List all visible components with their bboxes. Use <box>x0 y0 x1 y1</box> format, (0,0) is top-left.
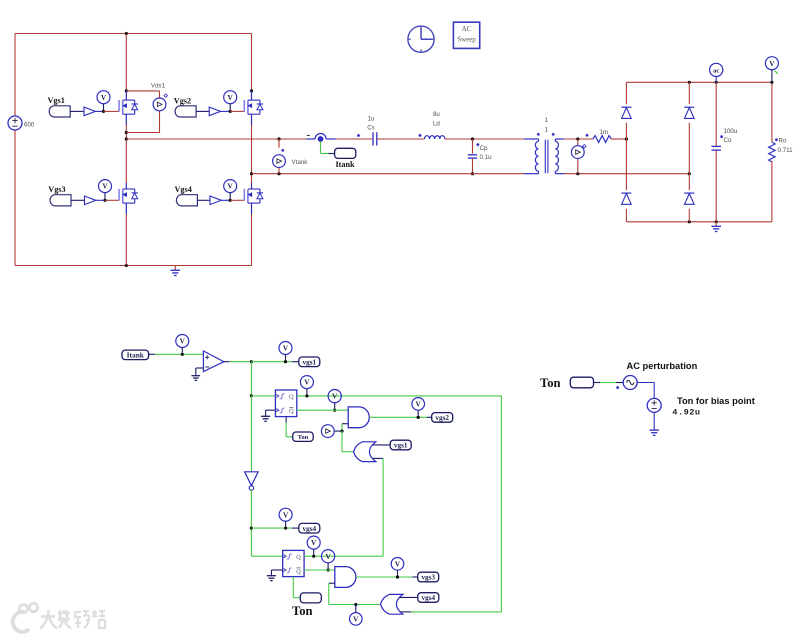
junction rect top D2 <box>688 81 691 84</box>
gating source Vgs4 <box>175 185 198 206</box>
wire Vgs1 to buffer <box>70 110 84 112</box>
ground rectifier <box>711 226 721 231</box>
junction Q2 drain <box>250 89 253 92</box>
svg-text:Q: Q <box>296 554 301 561</box>
wire comp out <box>224 361 252 363</box>
voltage probe Vout <box>765 57 778 84</box>
wire to FF2 <box>251 555 282 557</box>
svg-text:V: V <box>311 538 317 547</box>
svg-text:Q: Q <box>289 394 294 401</box>
wire AND1 in2 stub <box>342 424 348 431</box>
wire sensor to label <box>321 142 335 154</box>
svg-text:AC perturbation: AC perturbation <box>627 361 698 371</box>
wire gate2 <box>230 110 244 112</box>
diode D4 <box>684 193 694 204</box>
voltage probe Vvgs3 <box>391 558 404 579</box>
junction sec probe bottom <box>576 172 579 175</box>
net label vgs4 fb <box>418 593 439 603</box>
svg-text:0.711: 0.711 <box>778 147 794 154</box>
label 4.92u <box>672 408 700 418</box>
probe ac output <box>710 63 723 82</box>
junction Vtank bottom <box>277 172 280 175</box>
NOT gate inverter <box>245 472 259 491</box>
voltage probe Vg2 <box>224 91 237 113</box>
voltage probe Vg3 <box>99 180 112 202</box>
junction AND2 in2 <box>354 603 357 606</box>
probe V below <box>350 605 363 626</box>
svg-text:V: V <box>325 552 331 561</box>
wire FF1 K gnd <box>266 410 276 416</box>
svg-text:600: 600 <box>24 122 35 129</box>
watermark logo <box>13 603 38 632</box>
probe Vtank <box>273 155 286 168</box>
dc source Ton bias <box>647 398 661 412</box>
wire tank top B <box>336 134 373 139</box>
wire feedback vgs-b <box>382 458 384 556</box>
svg-text:V: V <box>180 337 186 346</box>
wire Co ground stub <box>715 222 717 226</box>
wire AND2 out <box>356 576 418 578</box>
svg-text:Ton for bias point: Ton for bias point <box>677 396 755 406</box>
wire Vtank stub top <box>279 139 284 152</box>
svg-text:Vds1: Vds1 <box>151 83 166 90</box>
wire FF2 Q <box>304 555 383 557</box>
svg-text:Ton: Ton <box>298 434 309 441</box>
wire tank top D <box>445 138 524 140</box>
gating source Vgs1 <box>48 96 71 117</box>
probe V on Q1 wire <box>328 390 341 412</box>
label Ton3 text <box>540 376 561 390</box>
junction rect top Co <box>715 81 718 84</box>
junction sec probe top <box>576 137 579 140</box>
svg-text:Vgs4: Vgs4 <box>175 185 192 194</box>
voltage probe Vvgs1 <box>279 342 292 364</box>
ac perturbation source <box>623 376 637 390</box>
junction AND2 out probe <box>396 575 399 578</box>
svg-text:vgs4: vgs4 <box>303 525 317 533</box>
diode D3 <box>621 193 631 204</box>
wire mid leg lower <box>125 214 127 266</box>
wire FF2 Qbar <box>304 569 335 571</box>
svg-text:0.1u: 0.1u <box>480 154 493 161</box>
svg-text:V: V <box>102 182 108 191</box>
dc source Vdc 600V <box>8 116 35 130</box>
wire mid leg upper <box>125 34 127 91</box>
ground Ton bias <box>649 430 659 435</box>
wire diode leg1 <box>625 82 627 222</box>
svg-text:ac: ac <box>713 67 719 74</box>
wire OR1 in1 stub <box>373 444 391 446</box>
wire buffer3 out <box>96 199 105 201</box>
wire rect bottom rail <box>626 221 772 223</box>
AC Sweep block <box>453 22 479 48</box>
junction bridge left mid <box>625 137 628 140</box>
MOSFET Q2 <box>244 91 263 125</box>
AND gate A2 <box>335 567 356 588</box>
diode D1 <box>621 107 631 118</box>
wire main vertical lower <box>250 490 252 556</box>
junction tank top tap <box>125 137 128 140</box>
wire to FF1 J <box>251 395 275 397</box>
capacitor Cp 0.1u <box>468 139 492 174</box>
wire FF1 Ton pin <box>286 417 293 437</box>
svg-text:V: V <box>353 615 359 624</box>
wire FF1 Q <box>297 395 502 397</box>
wire AND1 out <box>369 416 431 418</box>
svg-text:Co: Co <box>724 137 732 144</box>
wire sec probe stub <box>577 139 579 174</box>
resistor RL 1m <box>593 129 611 142</box>
net label Ton3 <box>570 377 593 388</box>
wire AND2 in2 stub <box>329 583 335 604</box>
wire bottom rail <box>15 265 252 267</box>
flip-flop FF1 <box>275 390 296 417</box>
svg-text:Q: Q <box>296 568 301 575</box>
wire comp minus to gnd <box>196 368 204 375</box>
junction leg2 midpoint <box>250 172 253 175</box>
OR gate O1 (mirrored) <box>354 442 376 462</box>
junction rect right mid <box>688 172 691 175</box>
label Vtank <box>292 159 309 166</box>
gating source Vgs2 <box>174 97 196 117</box>
wire 1m to bridge <box>611 138 626 140</box>
junction rect bottom Co <box>715 220 718 223</box>
svg-text:vgs3: vgs3 <box>421 574 435 582</box>
probe Vds1 <box>153 94 167 111</box>
comparator U1 <box>203 351 224 372</box>
svg-text:Ld: Ld <box>433 121 440 128</box>
watermark text <box>41 610 106 629</box>
net label vgs2 out <box>432 413 453 423</box>
wire tank top C <box>377 134 425 139</box>
capacitor Cs 1u <box>367 115 377 145</box>
wire top rail <box>15 33 252 35</box>
on-off controller g2 <box>209 107 220 116</box>
svg-text:Sweep: Sweep <box>457 37 476 44</box>
svg-text:V: V <box>101 93 107 102</box>
junction Vtank top <box>277 137 280 140</box>
net label Itank src <box>122 350 149 360</box>
wire Itank to comp <box>149 353 204 355</box>
wire dc bus left <box>14 34 16 266</box>
svg-text:vgs1: vgs1 <box>303 358 317 366</box>
label AC perturbation <box>627 361 698 371</box>
label Itank text <box>336 160 356 169</box>
wire gate4 <box>230 199 244 201</box>
svg-text:Cp: Cp <box>480 145 488 152</box>
junction AND1 out probe <box>417 416 420 419</box>
MOSFET Q1 <box>119 91 138 125</box>
on-off controller g4 <box>210 196 221 205</box>
wire OR1 out path <box>342 431 354 452</box>
junction rect bottom D2 <box>688 220 691 223</box>
wire OR2 in1 stub <box>400 596 418 598</box>
flip-flop FF2 <box>283 550 304 576</box>
net label Itank flag <box>335 148 356 158</box>
capacitor Co 100u <box>711 82 737 222</box>
wire Vds1 loop top <box>126 91 159 98</box>
svg-text:Itank: Itank <box>336 160 356 169</box>
clock icon <box>408 26 434 52</box>
transformer T1 <box>524 133 564 174</box>
label turns primary <box>544 117 548 124</box>
svg-text:vgs1: vgs1 <box>394 442 408 450</box>
svg-text:1: 1 <box>544 126 548 133</box>
svg-text:V: V <box>395 559 401 568</box>
label turns secondary <box>544 126 548 133</box>
AND gate A1 <box>348 407 369 428</box>
wire secondary top <box>564 134 593 139</box>
svg-text:AC: AC <box>462 26 472 33</box>
wire main vertical mid <box>250 396 252 472</box>
net label Ton1 <box>293 432 314 441</box>
wire gate1 <box>104 110 120 112</box>
svg-text:4.92u: 4.92u <box>672 408 700 418</box>
wire tank top A <box>126 138 306 140</box>
wire buffer4 out <box>221 199 230 201</box>
svg-text:100u: 100u <box>724 128 738 135</box>
resistor Ro 0.711 <box>769 82 793 222</box>
svg-text:V: V <box>332 392 338 401</box>
voltage probe Vvgs4 <box>279 508 292 530</box>
wire Ton to ac source <box>594 383 624 390</box>
voltage probe VQ1 <box>300 376 313 398</box>
wire ac to dc source <box>637 383 654 399</box>
wire rect top rail <box>626 81 772 83</box>
on-off controller g3 <box>85 196 96 205</box>
junction AND1 in2 <box>340 430 343 433</box>
wire gate3 <box>105 199 119 201</box>
wire Vds1 loop bottom <box>126 111 159 133</box>
wire tank bottom A <box>252 173 524 175</box>
junction FF1 J <box>250 394 253 397</box>
ground FF2 <box>267 576 276 581</box>
svg-text:V: V <box>228 93 234 102</box>
junction vgs4 row <box>250 527 253 530</box>
label Ton2 text <box>292 604 313 618</box>
wire FF2 K gnd <box>271 570 282 575</box>
wire buffer2 out <box>221 110 231 112</box>
wire main vertical upper <box>250 362 252 396</box>
diode D2 <box>684 107 694 118</box>
wire buffer1 out <box>95 110 103 112</box>
svg-text:Q: Q <box>289 408 294 415</box>
voltage probe Vitank <box>176 335 189 356</box>
wire right leg mid <box>251 125 253 183</box>
svg-text:V: V <box>304 378 310 387</box>
label Ton for bias point <box>677 396 755 406</box>
wire secondary bottom <box>564 173 689 175</box>
probe Vsec <box>571 145 586 159</box>
svg-text:Vgs3: Vgs3 <box>48 185 65 194</box>
voltage probe VQ2 <box>307 536 320 558</box>
net label vgs1 fb <box>390 440 411 450</box>
wire FF1 Qbar <box>297 409 348 411</box>
wire dc to gnd <box>653 412 655 429</box>
wire Vgs3 to buffer <box>71 199 85 201</box>
svg-text:1u: 1u <box>368 115 375 122</box>
wire mid leg source Q1 <box>125 125 127 183</box>
voltage probe Vvgs2 <box>412 398 425 419</box>
wire Vtank stub bottom <box>278 168 280 174</box>
svg-text:Vgs1: Vgs1 <box>48 96 65 105</box>
wire OR2 in2 stub <box>400 611 411 613</box>
svg-text:Ro: Ro <box>779 137 787 144</box>
svg-text:Itank: Itank <box>127 350 145 359</box>
probe Pfb1 <box>321 425 334 438</box>
svg-text:vgs4: vgs4 <box>422 594 436 602</box>
inductor Ld 8u <box>425 111 445 139</box>
voltage probe Vg4 <box>224 180 237 202</box>
wire diode leg2 <box>688 82 690 222</box>
svg-text:vgs2: vgs2 <box>435 414 449 422</box>
wire probe1 stub <box>334 430 342 432</box>
svg-text:V: V <box>283 344 289 353</box>
voltage probe Vg1 <box>97 91 110 113</box>
MOSFET Q4 <box>244 183 263 214</box>
junction bottom mid <box>125 264 128 267</box>
svg-text:1m: 1m <box>599 129 608 136</box>
svg-text:V: V <box>283 510 289 519</box>
wire right leg lower <box>251 214 253 266</box>
svg-text:8u: 8u <box>433 111 440 118</box>
svg-text:V: V <box>769 59 775 68</box>
ground bridge <box>174 266 176 271</box>
junction top mid <box>125 32 128 35</box>
net label vgs1 out <box>299 357 320 367</box>
probe Vout green mark <box>775 71 778 75</box>
ground bridge <box>171 270 181 275</box>
wire Vgs2 to buffer <box>196 110 209 112</box>
wire comp out to vgs1 <box>251 361 298 363</box>
current sensor Itank <box>307 134 336 142</box>
net label vgs3 out <box>418 572 439 582</box>
junction Cp bottom <box>471 172 474 175</box>
MOSFET Q3 <box>119 183 138 214</box>
net label Ton2 <box>300 593 321 603</box>
junction Q1 drain <box>125 89 128 92</box>
svg-text:1: 1 <box>544 117 548 124</box>
svg-text:Vtank: Vtank <box>292 159 309 166</box>
wire feedback loop <box>411 396 501 612</box>
wire OR1 in2 stub <box>373 457 383 459</box>
wire FF2 Ton pin <box>293 577 300 598</box>
wire Vgs4 to buffer <box>197 199 210 201</box>
probe V on Q2 wire <box>322 550 335 572</box>
ground FF1 <box>261 416 270 421</box>
wire right leg upper <box>251 34 253 91</box>
net label vgs4 out <box>299 523 320 533</box>
svg-text:Vgs2: Vgs2 <box>174 97 191 106</box>
wire AND2 in2 path <box>329 604 381 606</box>
ground comparator <box>191 376 200 381</box>
junction comp out <box>250 360 253 363</box>
OR gate O2 (mirrored) <box>381 594 403 614</box>
svg-text:Ton: Ton <box>292 604 313 618</box>
svg-text:V: V <box>228 182 234 191</box>
junction Cp top <box>471 137 474 140</box>
gating source Vgs3 <box>48 185 71 206</box>
junction Q1 source <box>125 131 128 134</box>
svg-text:Ton: Ton <box>540 376 561 390</box>
wire vgs4 row <box>251 527 298 529</box>
svg-text:Cs: Cs <box>367 125 375 132</box>
on-off controller g1 <box>84 107 95 116</box>
label Vds1 <box>151 83 166 90</box>
svg-text:V: V <box>416 400 422 409</box>
